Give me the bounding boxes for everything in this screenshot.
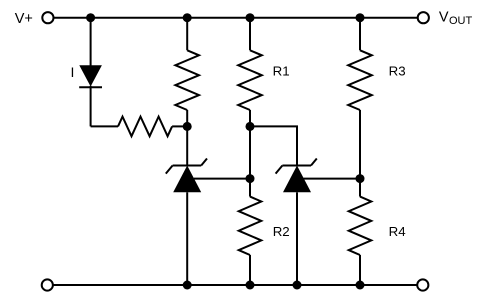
svg-text:V: V (439, 10, 449, 26)
svg-text:R1: R1 (273, 64, 290, 79)
svg-text:R4: R4 (389, 224, 406, 239)
svg-text:R2: R2 (273, 224, 290, 239)
svg-text:I: I (71, 64, 75, 80)
svg-text:R3: R3 (389, 64, 406, 79)
svg-text:OUT: OUT (449, 15, 473, 27)
svg-text:V+: V+ (15, 11, 33, 27)
